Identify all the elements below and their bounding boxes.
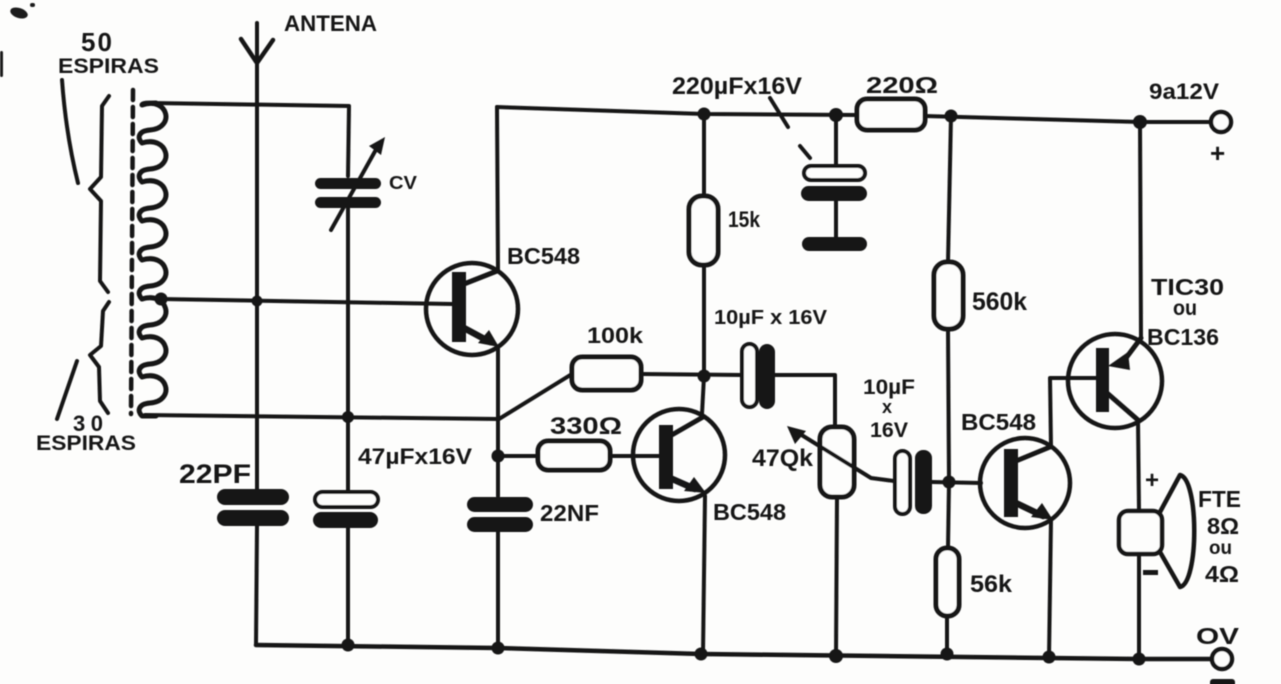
wire 10uF to pot top	[775, 375, 835, 427]
wire emitter Q1 down	[496, 347, 500, 496]
capacitor 47uF electrolytic	[313, 444, 472, 528]
wire collector Q4 up to top rail	[1140, 122, 1141, 338]
wire diagonal to 100k	[499, 374, 572, 419]
brace lower winding	[90, 302, 109, 413]
svg-text:10µF: 10µF	[863, 376, 915, 399]
junction emitter Q1 / 330ohm	[492, 450, 505, 463]
variable capacitor CV	[315, 137, 417, 230]
svg-text:330Ω: 330Ω	[550, 413, 622, 440]
capacitor 22PF	[179, 459, 289, 526]
wire top rail left (corner to 220ohm)	[497, 107, 857, 115]
wire base Q2 from 330ohm	[610, 454, 659, 458]
wire collector Q1 to top rail corner	[497, 107, 498, 271]
svg-text:9a12V: 9a12V	[1149, 79, 1219, 104]
potentiometer 470k	[752, 426, 894, 656]
capacitor 10uF x16V (coupling, top)	[714, 307, 828, 409]
svg-text:15k: 15k	[728, 207, 761, 232]
brace upper winding	[90, 96, 109, 292]
inductor L1 upper winding (50 espiras)	[139, 103, 166, 299]
antenna	[241, 11, 377, 104]
transistor Q2 BC548	[633, 409, 786, 525]
svg-text:22NF: 22NF	[540, 500, 599, 526]
junction 100k/15k/10uF node	[698, 370, 711, 383]
wire 22PF to bottom rail	[256, 526, 257, 645]
svg-text:560k: 560k	[972, 288, 1027, 316]
label 50 espiras	[58, 27, 159, 183]
resistor 560k	[934, 116, 1027, 482]
svg-text:ESPIRAS: ESPIRAS	[58, 55, 159, 78]
svg-text:16V: 16V	[870, 419, 908, 442]
scan specks (noise marks from original)	[0, 3, 35, 77]
wire 47uF leads	[346, 417, 350, 645]
svg-text:47µFx16V: 47µFx16V	[358, 444, 472, 469]
svg-text:FTE: FTE	[1198, 486, 1241, 512]
svg-text:ou: ou	[1209, 538, 1232, 559]
svg-text:CV: CV	[389, 173, 417, 193]
svg-text:ANTENA: ANTENA	[284, 11, 377, 36]
junction bottom rail x348	[342, 639, 355, 652]
svg-text:x: x	[882, 397, 892, 417]
svg-text:22PF: 22PF	[179, 459, 251, 489]
junction bottom rail x836	[829, 649, 843, 663]
svg-text:+: +	[1145, 467, 1159, 494]
svg-text:BC548: BC548	[961, 409, 1036, 435]
svg-text:220µFx16V: 220µFx16V	[672, 73, 802, 100]
svg-text:50: 50	[81, 27, 112, 57]
wire 22NF to bottom rail	[496, 532, 500, 648]
wire antenna down to 22PF	[255, 104, 259, 489]
wire 10uF2 to base Q3	[932, 482, 981, 483]
wire tap to base Q1	[161, 299, 452, 304]
resistor 56k	[936, 482, 1013, 654]
wire top rail right (220ohm to terminal)	[925, 116, 1210, 122]
wire CV to tank bottom	[346, 208, 350, 417]
svg-text:10µF x 16V: 10µF x 16V	[714, 307, 828, 329]
svg-text:220Ω: 220Ω	[866, 72, 938, 98]
capacitor 10uF x16V (to base Q3)	[863, 376, 932, 514]
terminal 9a12V (+)	[1149, 79, 1231, 168]
wire top-left rail (coil top to CV)	[152, 103, 349, 176]
svg-text:ESPIRAS: ESPIRAS	[36, 432, 136, 455]
transistor Q3 BC548	[961, 409, 1070, 528]
junction base Q3 node	[943, 476, 956, 489]
junction top rail x704	[698, 108, 711, 121]
resistor 220ohm	[857, 72, 938, 130]
wire collector Q2	[702, 376, 704, 414]
inductor L1 lower winding (30 espiras)	[139, 298, 166, 416]
svg-text:8Ω: 8Ω	[1207, 513, 1239, 539]
transistor Q1 BC548	[426, 243, 580, 355]
terminal 0V	[1196, 623, 1240, 684]
transistor Q4 TIC30/BC136	[1068, 274, 1224, 428]
ferrite core (dashed)	[131, 90, 133, 414]
junction antenna-tap crossing	[252, 296, 263, 307]
wire coil bottom	[145, 415, 498, 419]
svg-text:100k: 100k	[587, 323, 644, 348]
svg-text:BC548: BC548	[507, 243, 580, 269]
label 30 espiras	[36, 361, 136, 455]
wire emitter Q2 to bottom rail	[703, 496, 705, 654]
svg-text:BC548: BC548	[713, 499, 786, 525]
resistor 15k	[689, 114, 761, 376]
junction top rail x1140	[1133, 115, 1147, 129]
ground bar under 220uF	[802, 237, 867, 251]
wire 100k to node	[641, 374, 742, 375]
wire emitter Q3 to bottom rail	[1049, 520, 1051, 657]
svg-text:4Ω: 4Ω	[1205, 561, 1239, 587]
junction coil tap	[155, 293, 168, 306]
speaker FTE	[1119, 467, 1241, 659]
svg-text:ou: ou	[1173, 297, 1197, 320]
wire emitter Q4 to speaker	[1138, 420, 1139, 511]
junction top rail x836	[829, 108, 843, 122]
junction bottom rail x701	[695, 648, 708, 661]
resistor 330ohm	[498, 413, 622, 470]
capacitor 22NF	[467, 497, 599, 532]
svg-text:BC136: BC136	[1147, 324, 1219, 350]
junction bottom rail x1049	[1043, 651, 1056, 664]
wire bottom rail	[256, 645, 1213, 659]
wire collector Q3 to base Q4	[1050, 378, 1096, 447]
svg-text:+: +	[1210, 138, 1225, 168]
junction bottom rail x498	[492, 642, 505, 655]
capacitor 220uF x16V	[672, 73, 867, 238]
svg-text:47Qk: 47Qk	[752, 445, 814, 472]
junction bottom rail x947	[941, 648, 954, 661]
junction top rail x951	[945, 110, 958, 123]
resistor 100k	[572, 323, 644, 390]
svg-text:56k: 56k	[970, 571, 1013, 598]
junction bottom rail x1139	[1133, 653, 1146, 666]
svg-text:OV: OV	[1196, 623, 1240, 649]
junction tank bottom	[342, 411, 354, 423]
